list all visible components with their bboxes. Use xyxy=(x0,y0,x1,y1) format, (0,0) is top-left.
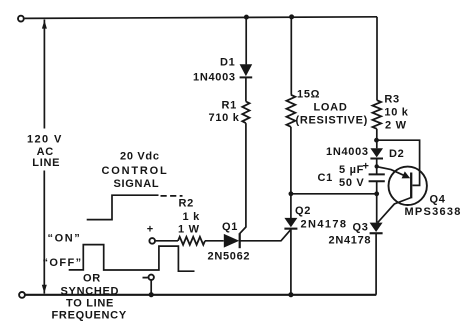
svg-text:R2: R2 xyxy=(179,198,194,210)
svg-text:+: + xyxy=(147,223,154,235)
svg-text:1N4003: 1N4003 xyxy=(326,146,369,158)
svg-text:2 W: 2 W xyxy=(385,119,407,131)
svg-text:SYNCHED: SYNCHED xyxy=(61,285,120,297)
svg-text:Q4: Q4 xyxy=(430,194,446,206)
svg-text:OR: OR xyxy=(83,272,101,284)
svg-text:20 Vdc: 20 Vdc xyxy=(120,150,160,162)
svg-text:10 k: 10 k xyxy=(384,106,408,118)
svg-text:710 k: 710 k xyxy=(209,112,240,124)
svg-text:“ON”: “ON” xyxy=(48,232,82,244)
svg-text:Q3: Q3 xyxy=(353,222,369,234)
svg-text:15Ω: 15Ω xyxy=(297,89,320,101)
svg-text:TO LINE: TO LINE xyxy=(66,298,114,310)
svg-text:R1: R1 xyxy=(222,100,237,112)
svg-text:MPS3638: MPS3638 xyxy=(405,206,462,218)
svg-text:5 µF: 5 µF xyxy=(339,164,364,176)
svg-text:CONTROL: CONTROL xyxy=(102,165,169,177)
svg-text:120 V: 120 V xyxy=(27,134,63,146)
svg-text:50 V: 50 V xyxy=(339,177,364,189)
svg-text:“OFF”: “OFF” xyxy=(43,257,83,269)
svg-text:2N4178: 2N4178 xyxy=(301,219,348,231)
svg-text:Q2: Q2 xyxy=(295,205,311,217)
svg-text:D2: D2 xyxy=(389,148,404,160)
svg-text:D1: D1 xyxy=(220,57,235,69)
svg-text:1 k: 1 k xyxy=(183,211,201,223)
svg-text:SIGNAL: SIGNAL xyxy=(114,178,160,190)
svg-text:1 W: 1 W xyxy=(178,224,200,236)
svg-text:LOAD: LOAD xyxy=(314,102,348,114)
svg-text:FREQUENCY: FREQUENCY xyxy=(52,309,127,321)
svg-text:2N4178: 2N4178 xyxy=(329,235,372,247)
svg-text:C1: C1 xyxy=(318,172,333,184)
svg-text:1N4003: 1N4003 xyxy=(193,72,236,84)
svg-text:LINE: LINE xyxy=(32,157,60,169)
svg-text:Q1: Q1 xyxy=(222,221,238,233)
svg-text:R3: R3 xyxy=(384,94,399,106)
svg-text:(RESISTIVE): (RESISTIVE) xyxy=(296,115,369,127)
svg-text:2N5062: 2N5062 xyxy=(208,251,251,263)
svg-text:+: + xyxy=(363,161,370,173)
